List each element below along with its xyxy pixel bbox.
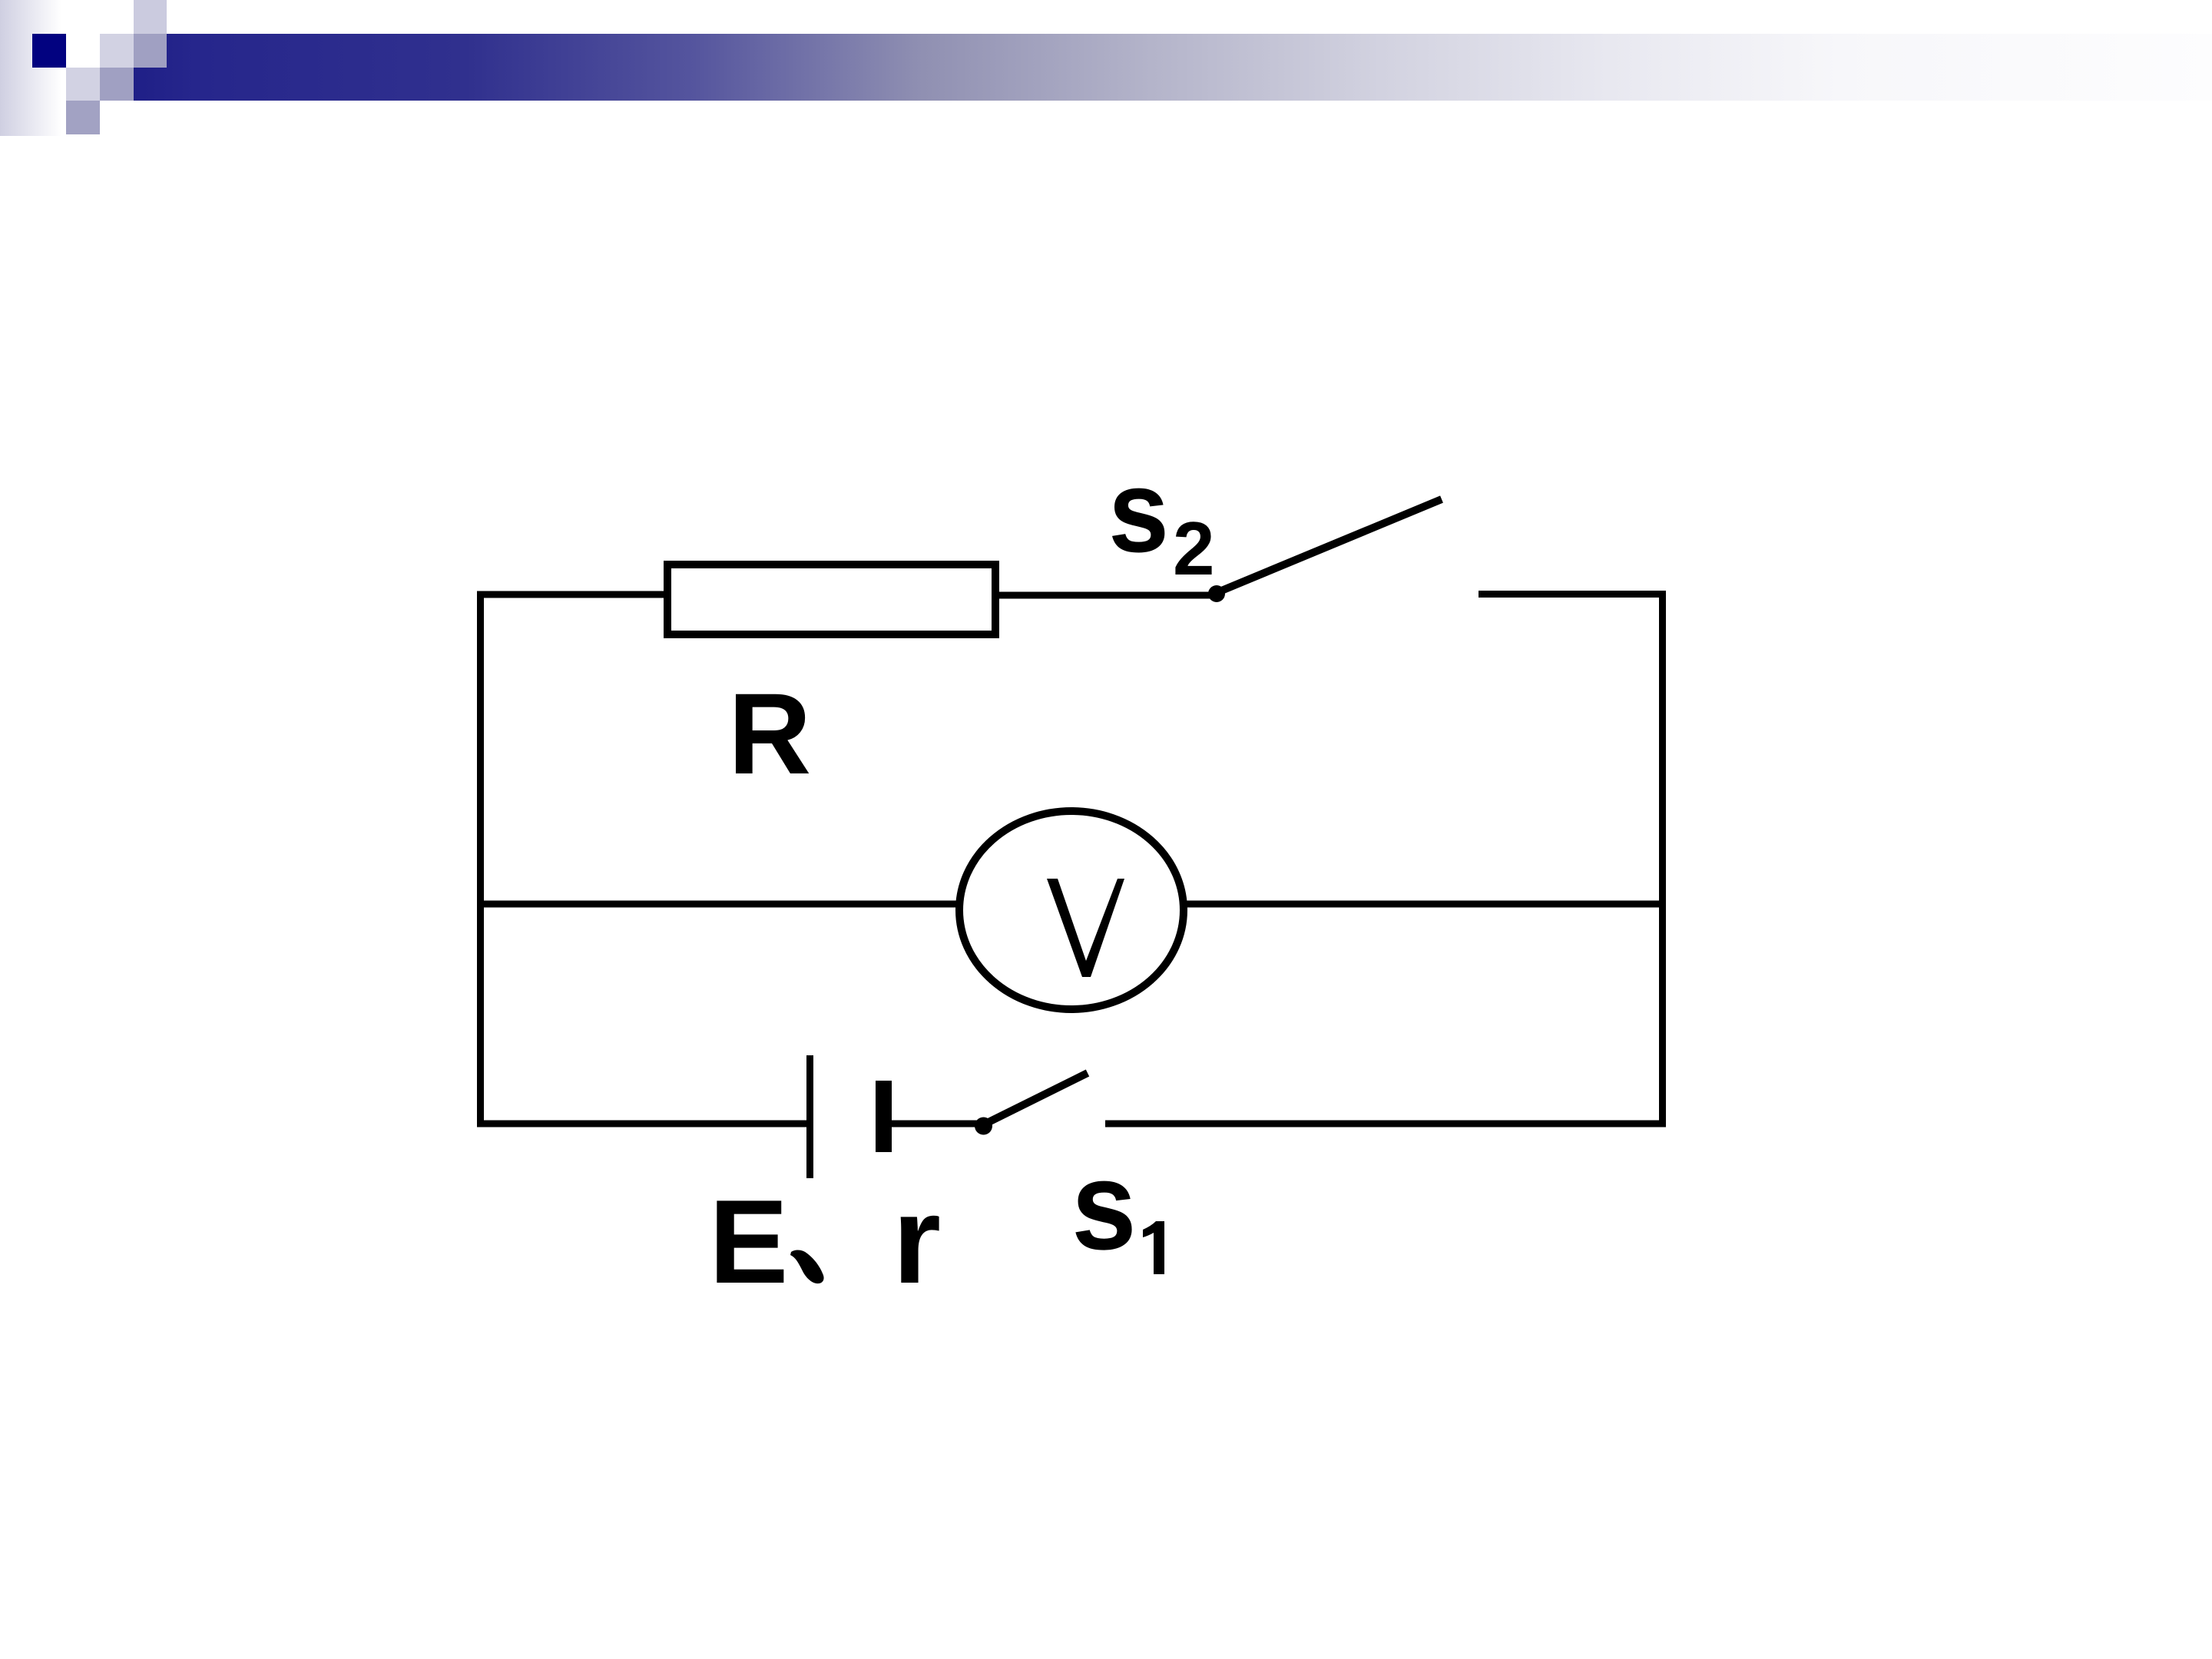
svg-text:r: r [892, 1171, 941, 1310]
svg-text:2: 2 [1173, 506, 1215, 591]
svg-text:s: s [1108, 445, 1169, 577]
svg-text:R: R [728, 669, 811, 798]
svg-text:E: E [709, 1175, 788, 1308]
svg-text:s: s [1071, 1135, 1137, 1276]
